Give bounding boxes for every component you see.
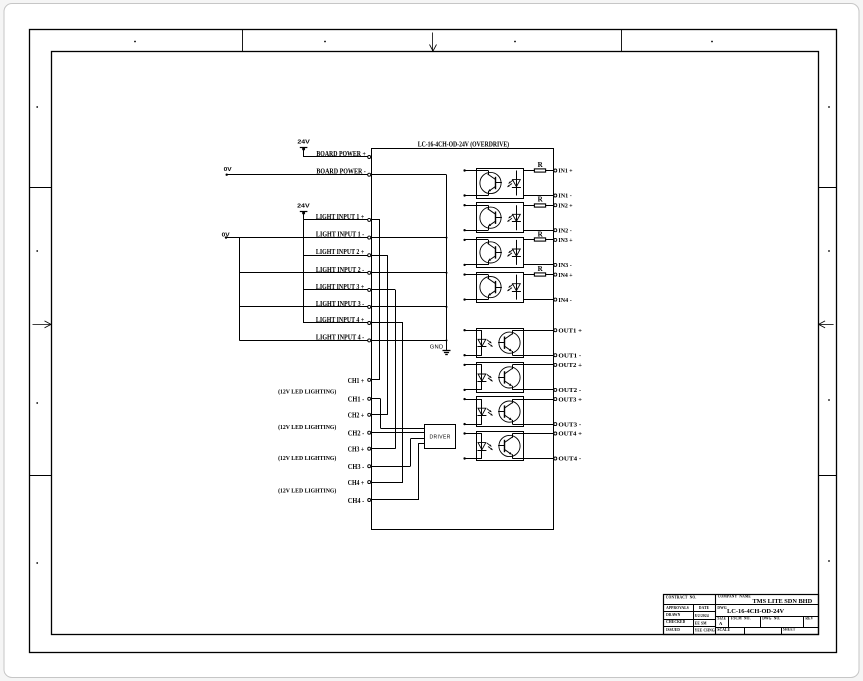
optocoupler U7 output channel 1: [463, 329, 523, 358]
pin IN3-: [554, 262, 572, 269]
ground GND symbol: [430, 345, 451, 355]
wire OUT2+ net: [512, 364, 553, 366]
wire IN2- net: [524, 230, 554, 232]
optocoupler U8 output channel 2: [463, 363, 523, 393]
pin OUT4+: [554, 431, 583, 438]
wire LIGHT INPUT 4- net: [239, 340, 367, 342]
driver block U2 DRIVER: [425, 425, 456, 449]
svg-text:LC-16-4CH-OD-24V (OVERDRIVE): LC-16-4CH-OD-24V (OVERDRIVE): [418, 140, 510, 148]
svg-text:GND: GND: [430, 345, 444, 351]
optocoupler U6 input channel 4: [463, 273, 523, 303]
pin IN2+: [554, 202, 573, 209]
wire CH1- to driver: [372, 399, 424, 429]
wire LIGHT INPUT 1+ to CH1+ (internal): [372, 220, 380, 380]
svg-text:24V: 24V: [297, 203, 310, 209]
pin LIGHT INPUT 2-: [316, 266, 371, 275]
wire OUT2- net: [512, 389, 553, 391]
svg-text:IN1 +: IN1 +: [558, 168, 573, 175]
wire GND rail vertical: [446, 175, 448, 351]
svg-text:OUT1 +: OUT1 +: [558, 327, 582, 334]
svg-text:IN3 +: IN3 +: [558, 237, 573, 244]
svg-text:BOARD POWER +: BOARD POWER +: [316, 150, 365, 158]
svg-text:DWG: DWG: [717, 606, 726, 610]
pin CH4-: [348, 497, 371, 505]
svg-text:0V: 0V: [224, 167, 232, 173]
svg-text:LIGHT INPUT 4 +: LIGHT INPUT 4 +: [316, 316, 364, 324]
wire CH2- to driver: [372, 432, 424, 434]
svg-text:EE SM: EE SM: [695, 621, 707, 625]
pin CH4+: [348, 479, 371, 487]
pin OUT3+: [554, 396, 583, 403]
svg-text:CONTRACT NO.: CONTRACT NO.: [666, 596, 697, 600]
svg-text:DWG NO.: DWG NO.: [762, 616, 780, 620]
pin IN4+: [554, 272, 573, 279]
power 24V supply symbol (board power): [297, 140, 310, 157]
svg-text:IN4 +: IN4 +: [558, 272, 573, 279]
svg-text:OUT2 -: OUT2 -: [558, 387, 581, 394]
wire IN1- net: [524, 195, 554, 197]
pin BOARD POWER +: [316, 150, 370, 159]
wire CH3- to driver: [372, 439, 424, 467]
pin CH3+: [348, 446, 371, 454]
optocoupler U10 output channel 4: [463, 432, 523, 461]
label (12V LED LIGHTING) channel 1: [278, 389, 336, 396]
pin BOARD POWER -: [316, 168, 370, 177]
wire 24V rail to LIGHT INPUT 2+/3+/4+: [303, 220, 305, 323]
svg-text:FSCM NO.: FSCM NO.: [731, 616, 751, 620]
wire OUT3+ net: [512, 399, 553, 401]
pin LIGHT INPUT 4-: [316, 333, 371, 342]
resistor R (IN4+): [524, 265, 554, 276]
optocoupler U9 output channel 3: [463, 397, 523, 427]
pin LIGHT INPUT 1-: [316, 231, 371, 240]
svg-text:CH1 +: CH1 +: [348, 377, 364, 385]
wire OUT1+ net: [512, 330, 553, 332]
resistor R (IN1+): [524, 161, 554, 172]
svg-text:CH2 +: CH2 +: [348, 412, 364, 420]
wire LIGHT INPUT 3- internal to GND rail: [372, 306, 447, 308]
svg-text:(12V LED LIGHTING): (12V LED LIGHTING): [278, 455, 336, 462]
pin CH1-: [348, 396, 371, 404]
svg-text:APPROVALS: APPROVALS: [666, 606, 689, 610]
svg-text:TMS LITE SDN BHD: TMS LITE SDN BHD: [752, 598, 812, 605]
svg-text:DATE: DATE: [699, 606, 710, 610]
svg-text:DRIVER: DRIVER: [429, 435, 450, 441]
wire IN4- net: [524, 299, 554, 301]
pin IN3+: [554, 237, 573, 244]
title block: [664, 595, 819, 635]
pin OUT1+: [554, 327, 583, 334]
optocoupler U5 input channel 3: [463, 238, 523, 268]
wire OUT4- net: [512, 458, 553, 460]
svg-text:CH2 -: CH2 -: [348, 430, 365, 438]
pin LIGHT INPUT 2+: [316, 248, 371, 257]
wire LIGHT INPUT 2+ to CH2+ (internal): [372, 255, 388, 415]
resistor R (IN3+): [524, 230, 554, 241]
svg-text:OUT3 +: OUT3 +: [558, 396, 582, 403]
wire BOARD POWER - net: [227, 174, 368, 176]
svg-text:LIGHT INPUT 4 -: LIGHT INPUT 4 -: [316, 333, 365, 341]
svg-text:CHECKED: CHECKED: [666, 620, 685, 624]
wire IN3- net: [524, 264, 554, 266]
svg-text:CH3 -: CH3 -: [348, 463, 365, 471]
label (12V LED LIGHTING) channel 3: [278, 455, 336, 462]
pin IN4-: [554, 297, 572, 304]
svg-text:IN1 -: IN1 -: [558, 193, 571, 200]
label (12V LED LIGHTING) channel 4: [278, 487, 336, 494]
wire BOARD POWER - internal to GND rail: [372, 174, 447, 176]
wire LIGHT INPUT 2- net: [239, 272, 367, 274]
svg-text:IN2 +: IN2 +: [558, 202, 573, 209]
pin CH1+: [348, 377, 371, 385]
wire LIGHT INPUT 4+ net: [304, 322, 368, 324]
pin OUT2+: [554, 362, 583, 369]
svg-text:LIGHT INPUT 3 +: LIGHT INPUT 3 +: [316, 283, 364, 291]
svg-text:BOARD POWER -: BOARD POWER -: [316, 168, 366, 176]
svg-text:CH4 -: CH4 -: [348, 497, 365, 505]
pin CH2-: [348, 430, 371, 438]
svg-text:LIGHT INPUT 2 -: LIGHT INPUT 2 -: [316, 266, 365, 274]
pin LIGHT INPUT 3+: [316, 283, 371, 292]
svg-text:SCALE: SCALE: [717, 628, 730, 632]
pin OUT1-: [554, 352, 581, 359]
svg-text:COMPANY NAME: COMPANY NAME: [718, 595, 752, 599]
resistor R (IN2+): [524, 196, 554, 207]
optocoupler U3 input channel 1: [463, 169, 523, 199]
svg-text:OUT3 -: OUT3 -: [558, 421, 581, 428]
svg-text:OUT4 +: OUT4 +: [558, 431, 582, 438]
wire LIGHT INPUT 1- net: [226, 237, 368, 239]
power 0V node (board power return): [224, 167, 232, 176]
wire LIGHT INPUT 1+ net: [304, 219, 368, 221]
value label LC-16-4CH-OD-24V (OVERDRIVE): [418, 140, 510, 148]
svg-text:REV: REV: [805, 616, 813, 620]
IC module U1 LC-16-4CH-OD-24V body: [372, 149, 554, 530]
wire LIGHT INPUT 3+ net: [304, 289, 368, 291]
svg-text:IN3 -: IN3 -: [558, 262, 571, 269]
pin CH2+: [348, 412, 371, 420]
svg-text:(12V LED LIGHTING): (12V LED LIGHTING): [278, 389, 336, 396]
pin LIGHT INPUT 1+: [316, 213, 371, 222]
svg-text:YEE CHNG: YEE CHNG: [695, 629, 715, 633]
svg-text:(12V LED LIGHTING): (12V LED LIGHTING): [278, 424, 336, 431]
wire OUT1- net: [512, 355, 553, 357]
wire LIGHT INPUT 4- internal to GND rail: [372, 340, 447, 342]
wire OUT3- net: [512, 424, 553, 426]
pin IN2-: [554, 227, 572, 234]
label (12V LED LIGHTING) channel 2: [278, 424, 336, 431]
wire LIGHT INPUT 4+ to CH4+ (internal): [372, 323, 403, 483]
pin LIGHT INPUT 4+: [316, 316, 371, 325]
svg-text:SIZE: SIZE: [717, 617, 726, 621]
svg-text:CH1 -: CH1 -: [348, 396, 365, 404]
pin OUT4-: [554, 456, 581, 463]
wire LIGHT INPUT 1- internal to GND rail: [372, 237, 447, 239]
svg-text:CH3 +: CH3 +: [348, 446, 364, 454]
wire LIGHT INPUT 3- net: [239, 306, 367, 308]
pin LIGHT INPUT 3-: [316, 300, 371, 309]
power 24V supply symbol (light inputs): [297, 203, 310, 220]
pin CH3-: [348, 463, 371, 471]
wire LIGHT INPUT 2- internal to GND rail: [372, 272, 447, 274]
svg-text:LIGHT INPUT 1 +: LIGHT INPUT 1 +: [316, 213, 364, 221]
power 0V node (light input return): [222, 232, 230, 238]
svg-text:SHEET: SHEET: [783, 627, 796, 631]
svg-text:LIGHT INPUT 2 +: LIGHT INPUT 2 +: [316, 248, 364, 256]
svg-text:(12V LED LIGHTING): (12V LED LIGHTING): [278, 487, 336, 494]
svg-text:LIGHT INPUT 1 -: LIGHT INPUT 1 -: [316, 231, 365, 239]
svg-text:LC-16-4CH-OD-24V: LC-16-4CH-OD-24V: [727, 608, 785, 615]
wire BOARD POWER + net: [304, 156, 368, 158]
svg-text:OUT1 -: OUT1 -: [558, 352, 581, 359]
svg-text:OUT2 +: OUT2 +: [558, 362, 582, 369]
pin OUT3-: [554, 421, 581, 428]
wire CH4- to driver: [372, 444, 424, 501]
svg-text:ISSUED: ISSUED: [666, 628, 680, 632]
pin IN1-: [554, 193, 572, 200]
wire OUT4+ net: [512, 433, 553, 435]
svg-text:OUT4 -: OUT4 -: [558, 456, 581, 463]
svg-text:LIGHT INPUT 3 -: LIGHT INPUT 3 -: [316, 300, 365, 308]
svg-text:DRAWN: DRAWN: [666, 613, 681, 617]
svg-text:24V: 24V: [297, 140, 310, 146]
svg-text:8/2/2024: 8/2/2024: [695, 614, 709, 618]
svg-text:IN2 -: IN2 -: [558, 227, 571, 234]
pin OUT2-: [554, 387, 581, 394]
wire 0V rail to LIGHT INPUT 2-/3-/4-: [239, 238, 241, 341]
optocoupler U4 input channel 2: [463, 203, 523, 233]
wire LIGHT INPUT 3+ to CH3+ (internal): [372, 290, 396, 449]
pin IN1+: [554, 168, 573, 175]
svg-text:CH4 +: CH4 +: [348, 479, 364, 487]
svg-text:IN4 -: IN4 -: [558, 297, 571, 304]
wire LIGHT INPUT 2+ net: [304, 255, 368, 257]
